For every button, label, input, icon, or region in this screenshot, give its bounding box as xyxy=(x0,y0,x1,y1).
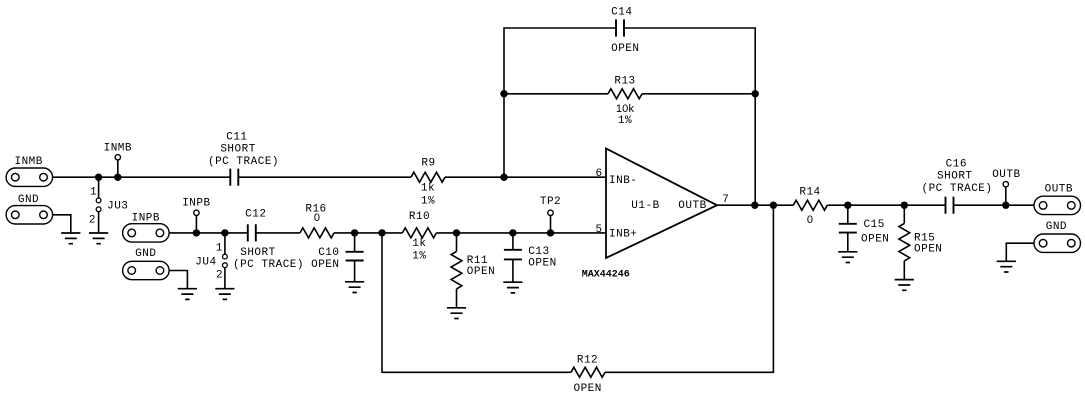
svg-text:OUTB: OUTB xyxy=(678,200,706,212)
svg-text:INMB: INMB xyxy=(14,156,42,168)
svg-text:1k: 1k xyxy=(412,238,426,250)
svg-text:SHORT: SHORT xyxy=(240,247,276,259)
svg-text:OPEN: OPEN xyxy=(611,43,639,55)
svg-text:(PC TRACE): (PC TRACE) xyxy=(208,156,279,168)
svg-text:C11: C11 xyxy=(226,132,247,144)
svg-text:JU3: JU3 xyxy=(107,201,128,213)
svg-text:R10: R10 xyxy=(409,211,430,223)
svg-text:5: 5 xyxy=(595,224,602,236)
svg-text:SHORT: SHORT xyxy=(937,171,973,183)
svg-text:R14: R14 xyxy=(799,187,820,199)
svg-text:INMB: INMB xyxy=(104,142,132,154)
svg-text:SHORT: SHORT xyxy=(220,143,256,155)
svg-text:C13: C13 xyxy=(528,246,549,258)
svg-text:OUTB: OUTB xyxy=(1045,184,1073,196)
svg-text:OPEN: OPEN xyxy=(467,266,495,278)
svg-text:C15: C15 xyxy=(864,219,885,231)
svg-text:INPB: INPB xyxy=(182,198,210,210)
svg-text:1%: 1% xyxy=(421,196,435,208)
svg-text:2: 2 xyxy=(89,214,96,226)
svg-text:OPEN: OPEN xyxy=(311,259,339,271)
svg-text:JU4: JU4 xyxy=(195,257,216,269)
svg-text:OPEN: OPEN xyxy=(861,233,889,245)
svg-text:OPEN: OPEN xyxy=(573,383,601,395)
svg-text:OUTB: OUTB xyxy=(992,169,1020,181)
svg-text:R9: R9 xyxy=(421,158,435,170)
svg-text:GND: GND xyxy=(18,194,39,206)
svg-text:OPEN: OPEN xyxy=(914,244,942,256)
svg-text:2: 2 xyxy=(216,270,223,282)
svg-text:TP2: TP2 xyxy=(540,196,561,208)
svg-text:1: 1 xyxy=(90,187,97,199)
svg-text:1%: 1% xyxy=(618,115,632,127)
svg-text:GND: GND xyxy=(1046,221,1067,233)
svg-text:10k: 10k xyxy=(616,103,635,115)
svg-text:R12: R12 xyxy=(577,354,598,366)
svg-text:C10: C10 xyxy=(318,247,339,259)
svg-text:0: 0 xyxy=(807,214,813,226)
svg-text:(PC TRACE): (PC TRACE) xyxy=(921,183,992,195)
svg-text:C14: C14 xyxy=(611,6,632,18)
svg-text:1: 1 xyxy=(216,242,223,254)
svg-text:INB+: INB+ xyxy=(609,229,637,241)
svg-text:1k: 1k xyxy=(421,183,435,195)
svg-text:GND: GND xyxy=(135,248,156,260)
svg-text:OPEN: OPEN xyxy=(528,257,556,269)
svg-text:INPB: INPB xyxy=(132,213,160,225)
svg-text:7: 7 xyxy=(722,194,729,206)
svg-text:1%: 1% xyxy=(412,251,426,263)
svg-text:0: 0 xyxy=(314,212,320,224)
svg-text:C16: C16 xyxy=(946,158,967,170)
svg-text:MAX44246: MAX44246 xyxy=(582,270,630,281)
svg-text:INB-: INB- xyxy=(609,175,637,187)
svg-text:(PC TRACE): (PC TRACE) xyxy=(233,259,304,271)
svg-text:C12: C12 xyxy=(245,209,266,221)
svg-text:U1-B: U1-B xyxy=(631,200,659,212)
svg-text:6: 6 xyxy=(595,168,602,180)
svg-text:R13: R13 xyxy=(614,76,635,88)
